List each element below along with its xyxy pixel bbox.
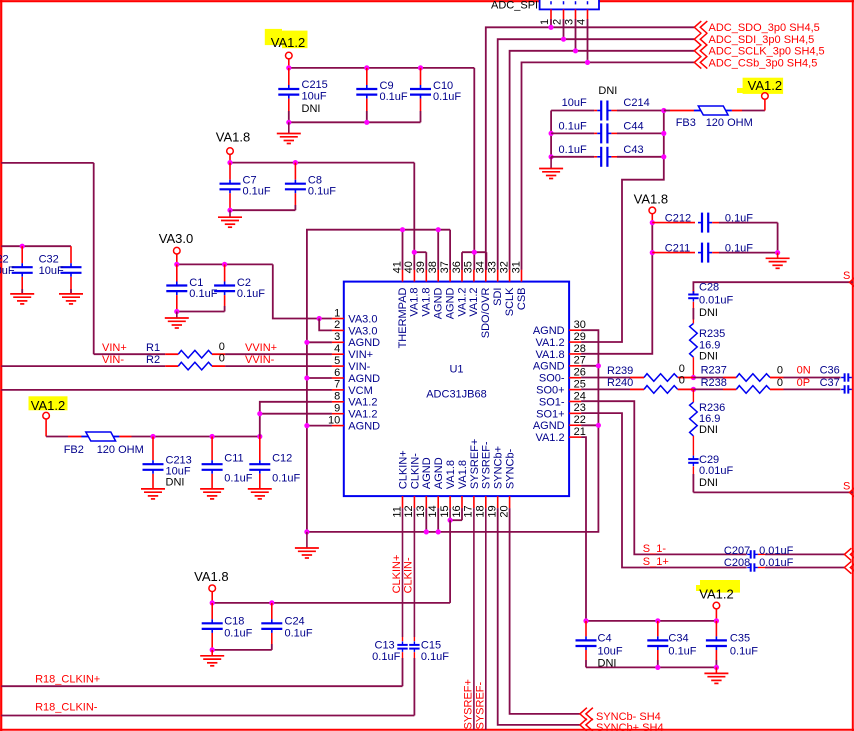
svg-text:S_1+: S_1+	[643, 556, 669, 568]
svg-text:FB2: FB2	[64, 444, 84, 456]
svg-text:1: 1	[539, 19, 551, 25]
wire AGND right bus	[304, 330, 601, 534]
wire VA1.2 bottom rail	[583, 618, 719, 623]
svg-text:SDI: SDI	[492, 288, 504, 306]
wire pins 15-16 VA1.8 link	[448, 508, 463, 603]
svg-text:0.1uF: 0.1uF	[559, 121, 587, 133]
svg-text:FB3: FB3	[676, 117, 696, 129]
svg-text:ADC_SPI: ADC_SPI	[491, 0, 538, 11]
svg-text:29: 29	[574, 331, 586, 343]
power VA1.8 at C18	[194, 569, 228, 603]
ground below C211	[766, 253, 790, 269]
wire C18-C24 bottom	[210, 647, 272, 652]
svg-text:0.1uF: 0.1uF	[189, 288, 217, 300]
power VA1.2 at FB2 highlighted	[29, 396, 68, 436]
node VA1.2 rail junctions	[286, 65, 423, 70]
capacitor C11 0.1uF	[202, 437, 253, 489]
svg-text:DNI: DNI	[699, 477, 718, 489]
capacitor C24 0.1uF	[261, 603, 313, 650]
svg-text:21: 21	[574, 426, 586, 438]
svg-text:C208: C208	[724, 557, 750, 569]
svg-text:C24: C24	[285, 615, 305, 627]
svg-text:10uF: 10uF	[0, 265, 15, 277]
svg-text:C10: C10	[433, 80, 453, 92]
capacitor C43 0.1uF	[551, 144, 664, 167]
wire C7-C8 bottom	[227, 208, 295, 213]
U1 bottom pins 11-20 with numbers and names	[391, 439, 516, 518]
sheet border top	[0, 0, 854, 2]
resistor R239 0	[581, 363, 693, 382]
U1 top pins 41-31 with numbers and names	[391, 261, 528, 348]
svg-text:0: 0	[679, 375, 685, 387]
svg-text:CLKIN-: CLKIN-	[403, 557, 415, 593]
svg-text:DNI: DNI	[302, 103, 321, 115]
svg-text:VA1.2: VA1.2	[535, 432, 564, 444]
power VA1.8 at C212	[634, 191, 668, 222]
wire pin19 SYNCb+ row	[498, 508, 580, 725]
svg-text:CLKIN+: CLKIN+	[391, 555, 403, 594]
off-page connector S_1-	[844, 548, 854, 560]
svg-text:C22: C22	[0, 254, 9, 266]
ground below C213	[141, 489, 165, 499]
wire VA1.2 rail top	[289, 68, 475, 252]
svg-text:C18: C18	[224, 615, 244, 627]
svg-text:0.01uF: 0.01uF	[699, 294, 734, 306]
svg-text:0: 0	[219, 353, 225, 365]
net VIN+ label	[102, 342, 127, 354]
capacitor C214 10uF DNI	[551, 85, 664, 121]
wire VA1.2 to FB2	[46, 436, 81, 438]
svg-text:0.1uF: 0.1uF	[285, 628, 313, 640]
svg-text:C12: C12	[272, 452, 292, 464]
svg-text:C43: C43	[623, 144, 643, 156]
svg-text:R239: R239	[607, 365, 633, 377]
svg-text:C8: C8	[308, 174, 322, 186]
svg-text:0.01uF: 0.01uF	[699, 465, 734, 477]
svg-text:VA1.8: VA1.8	[445, 460, 457, 489]
ferrite bead FB3 120 OHM	[664, 106, 765, 129]
connector ADC_SPI	[491, 0, 599, 11]
svg-text:VA1.2: VA1.2	[456, 288, 468, 317]
svg-text:U1: U1	[449, 364, 463, 376]
svg-text:11: 11	[391, 506, 403, 517]
svg-text:VA3.0: VA3.0	[348, 325, 377, 337]
capacitor C12 0.1uF	[249, 437, 300, 489]
wire pin17 SYSREF+ down	[473, 508, 475, 730]
svg-text:2: 2	[334, 319, 340, 331]
connector ADC_SPI pins 1-4	[539, 9, 588, 62]
wire S_0+ bottom row	[693, 481, 854, 499]
resistor R2 0	[1, 353, 332, 370]
wire S_0- top row	[693, 270, 854, 294]
capacitor C35 0.1uF	[706, 621, 758, 668]
svg-text:AGND: AGND	[444, 287, 456, 319]
svg-text:CSB: CSB	[516, 288, 528, 311]
capacitor C213 10uF DNI	[143, 437, 192, 489]
svg-text:16: 16	[451, 505, 463, 517]
svg-text:VA3.0: VA3.0	[348, 313, 377, 325]
ground below C215	[277, 122, 301, 143]
svg-text:SDO/OVR: SDO/OVR	[480, 287, 492, 338]
power VA1.2 at FB3 highlighted	[737, 78, 783, 111]
svg-text:VA1.2: VA1.2	[31, 398, 65, 413]
svg-text:ADC_SDO_3p0 SH4,5: ADC_SDO_3p0 SH4,5	[709, 22, 820, 34]
svg-text:0.1uF: 0.1uF	[224, 628, 252, 640]
svg-text:AGND: AGND	[433, 287, 445, 319]
svg-text:0.1uF: 0.1uF	[272, 472, 300, 484]
svg-text:CLKIN-: CLKIN-	[409, 453, 421, 489]
svg-text:C35: C35	[730, 633, 750, 645]
svg-text:AGND: AGND	[433, 457, 445, 489]
ground below C32	[59, 294, 83, 304]
ground AGND below U1	[295, 532, 319, 558]
svg-text:14: 14	[427, 505, 439, 517]
svg-text:VA1.2: VA1.2	[348, 409, 377, 421]
svg-text:SYSREF+: SYSREF+	[469, 439, 481, 489]
svg-text:S: S	[843, 270, 850, 282]
svg-text:0: 0	[219, 341, 225, 353]
svg-text:10uF: 10uF	[598, 645, 623, 657]
capacitor C212 0.1uF	[652, 212, 777, 252]
svg-text:32: 32	[498, 261, 510, 273]
wire VA1.8 bottom rail	[210, 600, 451, 605]
capacitor C34 0.1uF	[647, 621, 697, 668]
capacitor C22 10uF (clipped at border)	[0, 246, 33, 294]
svg-text:0.01uF: 0.01uF	[759, 545, 794, 557]
resistor R235 16.9 DNI	[690, 320, 726, 378]
svg-text:R240: R240	[607, 377, 633, 389]
svg-text:SO1-: SO1-	[539, 396, 565, 408]
svg-text:R1: R1	[146, 342, 160, 354]
svg-text:36: 36	[451, 261, 463, 273]
svg-text:DNI: DNI	[598, 85, 617, 97]
svg-text:VA1.2: VA1.2	[748, 78, 782, 93]
svg-text:0N: 0N	[797, 365, 811, 377]
svg-text:0.1uF: 0.1uF	[237, 288, 265, 300]
capacitor C15 0.1uF	[409, 639, 449, 715]
ground below C7	[218, 210, 242, 227]
svg-text:C28: C28	[699, 282, 719, 294]
svg-text:VA1.8: VA1.8	[421, 288, 433, 317]
svg-text:10uF: 10uF	[562, 97, 587, 109]
svg-text:C207: C207	[724, 545, 750, 557]
wire pin21 VA1.2 to rail	[581, 437, 586, 621]
svg-text:AGND: AGND	[348, 421, 380, 433]
wire left rail to C32	[1, 244, 71, 249]
svg-text:AGND: AGND	[533, 420, 565, 432]
svg-text:4: 4	[575, 19, 587, 25]
svg-text:R2: R2	[146, 354, 160, 366]
svg-text:9: 9	[334, 403, 340, 415]
svg-text:10uF: 10uF	[39, 265, 64, 277]
svg-text:C1: C1	[189, 277, 203, 289]
wire pins8-9 VA1.2 link	[257, 402, 332, 437]
net CLKIN- vertical label	[403, 557, 415, 593]
power VA1.2 top-left highlighted	[265, 29, 308, 68]
svg-text:22: 22	[574, 414, 586, 426]
svg-text:1: 1	[334, 307, 340, 319]
svg-text:SYSREF-: SYSREF-	[475, 681, 487, 729]
svg-text:C7: C7	[243, 174, 257, 186]
wire pin11 CLKIN+ down	[402, 508, 404, 641]
svg-text:SO1+: SO1+	[536, 408, 564, 420]
node R237 row junction	[691, 375, 696, 380]
sheet border bottom	[0, 729, 854, 731]
wire VCM from left edge	[1, 389, 332, 391]
svg-text:0.01uF: 0.01uF	[759, 557, 794, 569]
wire VA1.8 rail	[227, 160, 414, 252]
svg-text:SYSREF+: SYSREF+	[463, 679, 475, 729]
U1 right pins 30-21 with numbers and names	[533, 319, 586, 444]
capacitor C10 0.1uF	[410, 68, 461, 122]
svg-text:35: 35	[463, 261, 475, 273]
net SYSREF- vertical label	[475, 681, 487, 729]
ground below C12	[248, 489, 272, 499]
capacitor C207 0.01uF	[724, 545, 844, 558]
svg-text:ADC_SDI_3p0 SH4,5: ADC_SDI_3p0 SH4,5	[709, 34, 815, 46]
svg-text:C11: C11	[224, 452, 243, 464]
svg-text:30: 30	[574, 319, 586, 331]
wire VA1.8 bus to pin28	[581, 220, 655, 354]
svg-text:0.1uF: 0.1uF	[668, 645, 696, 657]
svg-text:CLKIN+: CLKIN+	[397, 450, 409, 489]
svg-text:0.1uF: 0.1uF	[433, 91, 461, 103]
svg-text:VIN+: VIN+	[102, 342, 127, 354]
svg-text:VA1.2: VA1.2	[468, 288, 480, 317]
capacitor C18 0.1uF	[202, 603, 253, 650]
resistor R236 16.9 DNI	[690, 389, 726, 455]
wire C214 block left bus	[549, 111, 554, 160]
svg-text:S: S	[843, 481, 850, 493]
svg-text:0.1uF: 0.1uF	[308, 186, 336, 198]
svg-text:C32: C32	[39, 254, 59, 266]
node FB2 rail junctions	[150, 434, 262, 439]
svg-text:13: 13	[415, 505, 427, 517]
capacitor C8 0.1uF	[285, 163, 336, 211]
svg-text:AGND: AGND	[421, 457, 433, 489]
svg-text:0.1uF: 0.1uF	[559, 144, 587, 156]
svg-text:37: 37	[439, 261, 451, 273]
svg-text:0.1uF: 0.1uF	[725, 242, 753, 254]
svg-text:AGND: AGND	[348, 373, 380, 385]
svg-text:VA1.8: VA1.8	[535, 349, 564, 361]
svg-text:SYNCb+: SYNCb+	[493, 446, 505, 489]
capacitor C4 10uF DNI	[576, 621, 623, 670]
svg-text:3: 3	[563, 19, 575, 25]
wire S_1- from pin24	[581, 401, 747, 555]
svg-text:7: 7	[334, 379, 340, 391]
power VA1.2 at C35 highlighted	[696, 580, 740, 621]
svg-text:C44: C44	[623, 121, 643, 133]
svg-text:S_1-: S_1-	[643, 543, 667, 555]
svg-text:R18_CLKIN+: R18_CLKIN+	[35, 673, 100, 685]
capacitor C28 0.01uF DNI	[688, 282, 733, 320]
svg-text:DNI: DNI	[699, 424, 718, 436]
svg-text:R237: R237	[701, 365, 727, 377]
svg-text:38: 38	[427, 261, 439, 273]
wire VA1.2 feed pins 36 35 34	[462, 250, 486, 270]
svg-text:33: 33	[487, 261, 499, 273]
svg-text:120 OHM: 120 OHM	[706, 117, 753, 129]
capacitor C1 0.1uF	[166, 264, 217, 311]
svg-text:AGND: AGND	[348, 337, 380, 349]
svg-text:VIN-: VIN-	[102, 354, 124, 366]
svg-text:4: 4	[334, 343, 340, 355]
off-page connector S_1+	[844, 561, 854, 573]
svg-text:THERMPAD: THERMPAD	[397, 287, 409, 348]
svg-text:C37: C37	[820, 377, 840, 389]
svg-text:SYNCb+ SH4: SYNCb+ SH4	[596, 722, 664, 731]
svg-text:41: 41	[391, 261, 403, 273]
svg-text:SO0+: SO0+	[536, 385, 564, 397]
wire VA3.0 rail	[174, 262, 332, 319]
svg-text:C214: C214	[623, 97, 649, 109]
svg-text:12: 12	[403, 505, 415, 517]
svg-text:C4: C4	[598, 633, 612, 645]
svg-text:0P: 0P	[797, 377, 810, 389]
svg-text:VA1.2: VA1.2	[535, 337, 564, 349]
wire pin12 CLKIN- down	[413, 508, 415, 641]
svg-text:15: 15	[439, 505, 451, 517]
ground below C1	[165, 312, 189, 329]
net VIN- label	[102, 354, 124, 366]
ground below C35	[704, 667, 728, 683]
svg-text:VA1.2: VA1.2	[348, 397, 377, 409]
svg-text:0.1uF: 0.1uF	[421, 651, 449, 663]
capacitor C32 10uF	[39, 246, 82, 294]
wire S_1+ from pin23	[581, 413, 747, 568]
resistor R237 0	[693, 365, 840, 382]
capacitor C36	[841, 373, 853, 381]
svg-text:C36: C36	[820, 365, 840, 377]
ground below C18	[200, 650, 224, 666]
capacitor C37	[841, 385, 853, 393]
svg-text:2: 2	[551, 19, 563, 25]
svg-text:DNI: DNI	[166, 477, 185, 489]
capacitor C7 0.1uF	[220, 163, 271, 211]
svg-text:SYNCb-: SYNCb-	[505, 448, 517, 489]
sheet border left	[0, 0, 2, 731]
svg-text:ADC_CSb_3p0 SH4,5: ADC_CSb_3p0 SH4,5	[709, 57, 818, 69]
svg-text:DNI: DNI	[699, 351, 718, 363]
resistor R1 0	[94, 341, 332, 358]
svg-text:VIN-: VIN-	[348, 361, 370, 373]
wire C214 block right bus to pin29	[581, 108, 666, 342]
svg-text:C211: C211	[665, 242, 690, 254]
svg-text:VA3.0: VA3.0	[159, 231, 193, 246]
capacitor C215 10uF DNI	[278, 68, 327, 122]
svg-text:0.1uF: 0.1uF	[725, 212, 753, 224]
svg-text:3: 3	[334, 331, 340, 343]
off-page connector SYNCb- SH4	[580, 708, 661, 723]
svg-text:0.1uF: 0.1uF	[243, 186, 271, 198]
svg-text:VA1.8: VA1.8	[457, 460, 469, 489]
svg-text:C13: C13	[375, 639, 395, 651]
svg-text:C15: C15	[421, 639, 441, 651]
svg-text:18: 18	[475, 505, 487, 517]
svg-text:34: 34	[475, 261, 487, 273]
capacitor C44 0.1uF	[551, 121, 664, 144]
svg-text:VCM: VCM	[348, 385, 372, 397]
svg-text:C34: C34	[668, 633, 688, 645]
wire AGND left bus	[304, 230, 450, 532]
svg-text:17: 17	[463, 505, 475, 517]
svg-text:SO0-: SO0-	[539, 373, 565, 385]
svg-text:AGND: AGND	[533, 361, 565, 373]
svg-text:10: 10	[328, 414, 340, 426]
svg-text:R18_CLKIN-: R18_CLKIN-	[35, 702, 98, 714]
resistor R240 0	[581, 375, 693, 394]
wire pin20 SYNCb- row	[510, 508, 580, 714]
wire C1-C2 bottom	[174, 309, 224, 314]
ground below C11	[200, 489, 224, 499]
wire VIN+ feed from left	[1, 163, 94, 354]
svg-text:0: 0	[777, 365, 783, 377]
svg-text:AGND: AGND	[533, 325, 565, 337]
IC U1 ADC31JB68 body	[344, 282, 569, 497]
ground below C22	[10, 294, 34, 304]
svg-text:C212: C212	[665, 212, 691, 224]
svg-text:R238: R238	[701, 377, 727, 389]
svg-text:VA1.8: VA1.8	[194, 569, 228, 584]
svg-text:0.1uF: 0.1uF	[380, 91, 408, 103]
capacitor C208 0.01uF	[724, 557, 844, 572]
svg-text:0: 0	[777, 377, 783, 389]
svg-text:19: 19	[487, 505, 499, 517]
svg-text:31: 31	[510, 261, 522, 273]
svg-text:VA1.8: VA1.8	[634, 191, 668, 206]
svg-text:VA1.8: VA1.8	[409, 288, 421, 317]
off-page connectors ADC SPI nets	[694, 21, 824, 69]
svg-text:120 OHM: 120 OHM	[97, 444, 144, 456]
svg-text:C2: C2	[237, 277, 251, 289]
svg-text:10uF: 10uF	[302, 90, 327, 102]
wire pin18 SYSREF- down	[485, 508, 487, 730]
svg-text:27: 27	[574, 355, 586, 367]
node R238 row junction	[691, 387, 696, 392]
svg-text:SCLK: SCLK	[504, 287, 516, 316]
ground below C214 block	[539, 157, 563, 179]
svg-text:VA1.2: VA1.2	[699, 586, 733, 601]
capacitor C9 0.1uF	[356, 68, 408, 122]
svg-text:0: 0	[679, 363, 685, 375]
capacitor C211 0.1uF	[652, 242, 780, 262]
svg-text:0.1uF: 0.1uF	[224, 472, 252, 484]
svg-text:VVIN-: VVIN-	[245, 354, 275, 366]
svg-text:SYSREF-: SYSREF-	[481, 441, 493, 489]
svg-text:R235: R235	[699, 328, 725, 340]
U1 left pins 1-10 with numbers and names	[328, 307, 380, 432]
power VA3.0	[159, 231, 193, 264]
wire R18_CLKIN+ row	[1, 673, 402, 686]
svg-text:39: 39	[415, 261, 427, 273]
wire AGND to top pins 41 38 37	[400, 227, 450, 270]
svg-text:VA1.2: VA1.2	[271, 35, 305, 50]
svg-text:5: 5	[334, 355, 340, 367]
capacitor C2 0.1uF	[214, 264, 265, 311]
node VA3.0 to pin2 branch	[317, 316, 332, 331]
svg-text:VA1.8: VA1.8	[216, 130, 250, 145]
svg-text:ADC31JB68: ADC31JB68	[426, 389, 487, 401]
svg-text:C29: C29	[699, 454, 719, 466]
svg-text:0.1uF: 0.1uF	[730, 645, 758, 657]
wire SPI nets to U1 and off-page	[486, 25, 695, 270]
wire VA1.8 feed pins 40 39	[412, 250, 427, 270]
svg-text:0.1uF: 0.1uF	[372, 651, 400, 663]
svg-text:VIN+: VIN+	[348, 349, 373, 361]
capacitor C13 0.1uF	[372, 639, 408, 686]
net CLKIN+ vertical label	[391, 555, 403, 594]
